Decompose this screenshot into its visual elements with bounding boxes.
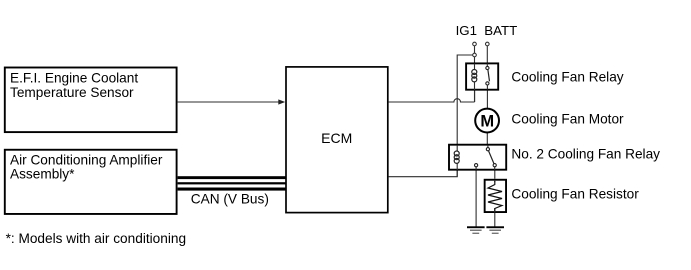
svg-text:ECM: ECM (321, 130, 352, 146)
svg-text:Air Conditioning Amplifier: Air Conditioning Amplifier (10, 152, 163, 167)
svg-text:BATT: BATT (484, 23, 517, 38)
svg-text:E.F.I. Engine Coolant: E.F.I. Engine Coolant (10, 71, 138, 86)
svg-text:Cooling Fan Motor: Cooling Fan Motor (511, 111, 624, 126)
svg-text:M: M (480, 113, 494, 131)
svg-text:CAN (V Bus): CAN (V Bus) (191, 192, 269, 207)
svg-text:IG1: IG1 (456, 23, 477, 38)
svg-text:Cooling Fan Resistor: Cooling Fan Resistor (511, 187, 639, 202)
svg-text:Cooling Fan Relay: Cooling Fan Relay (511, 70, 623, 85)
svg-text:*: Models with air conditionin: *: Models with air conditioning (6, 231, 186, 246)
svg-text:Assembly*: Assembly* (10, 166, 75, 181)
svg-text:Temperature Sensor: Temperature Sensor (10, 85, 134, 100)
svg-text:No. 2 Cooling Fan Relay: No. 2 Cooling Fan Relay (511, 146, 660, 161)
